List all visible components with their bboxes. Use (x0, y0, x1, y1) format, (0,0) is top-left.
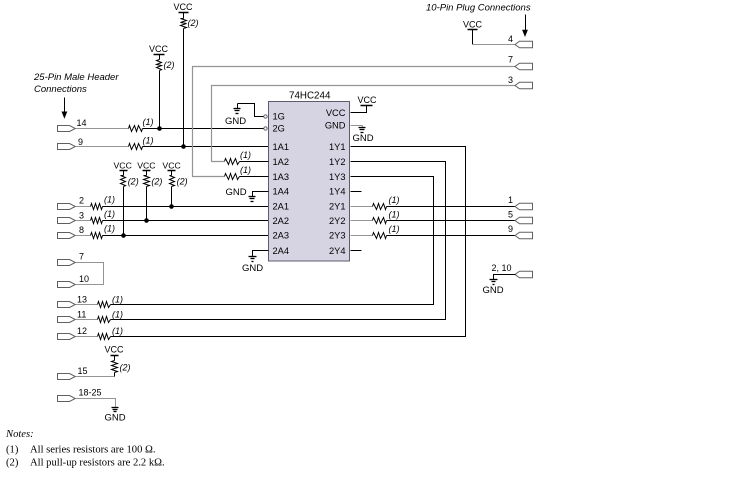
svg-text:VCC: VCC (104, 345, 124, 355)
svg-text:Connections: Connections (34, 84, 87, 95)
resistor (1) series on line 12 (98, 334, 111, 340)
label GND (226, 187, 247, 198)
pin label 1Y3 (329, 172, 346, 182)
svg-text:14: 14 (77, 118, 87, 128)
svg-text:VCC: VCC (149, 44, 169, 54)
value label (1) (104, 209, 115, 219)
resistor (1) series at 2Y2 (373, 218, 387, 224)
svg-text:1A1: 1A1 (273, 142, 290, 152)
wire line 8 to IC (103, 235, 269, 237)
svg-text:2A4: 2A4 (273, 246, 290, 256)
label 8 (79, 225, 84, 235)
connector pin 15 (58, 374, 76, 380)
label 3 (79, 211, 84, 221)
svg-text:(1): (1) (112, 295, 123, 305)
pin label 2A3 (273, 231, 290, 241)
value label (2) (188, 18, 199, 28)
value label (1) (240, 165, 251, 175)
connector pin 3 (58, 218, 76, 224)
svg-text:(2): (2) (177, 177, 188, 187)
svg-text:(2): (2) (164, 60, 175, 70)
power VCC symbol at IC (357, 95, 377, 106)
ground symbol at GND pin (359, 128, 366, 133)
junction node line14/pull-up (157, 126, 162, 131)
svg-text:VCC: VCC (137, 161, 155, 171)
resistor (1) series on line 11 (98, 317, 111, 323)
value label (1) (112, 295, 123, 305)
label 7 (508, 55, 513, 65)
wire pull-up drop (123, 187, 125, 236)
svg-text:(1): (1) (6, 445, 19, 456)
ground symbol (2,10) (490, 280, 498, 285)
svg-text:2A3: 2A3 (273, 231, 290, 241)
svg-text:(2): (2) (120, 363, 131, 373)
label GND (353, 133, 374, 144)
wire pin 15 (76, 376, 115, 378)
pin label 2A4 (273, 246, 290, 256)
connector plug pin 5 (515, 217, 533, 224)
svg-text:1Y1: 1Y1 (329, 142, 346, 152)
label 3 (508, 75, 513, 85)
value label (2) (120, 363, 131, 373)
label 74HC244 (289, 90, 331, 101)
pin label 2Y4 (329, 246, 346, 256)
label 7 (79, 252, 84, 262)
svg-text:13: 13 (77, 295, 87, 305)
svg-text:4: 4 (508, 34, 513, 44)
svg-text:2Y1: 2Y1 (329, 202, 346, 212)
resistor (2) pull-up on line 9 (181, 19, 187, 29)
svg-text:1A3: 1A3 (273, 172, 290, 182)
wire pin11 to resistor (76, 319, 98, 321)
svg-text:(1): (1) (389, 224, 400, 234)
svg-text:10-Pin Plug Connections: 10-Pin Plug Connections (426, 3, 531, 14)
header label: 25-Pin Male Header Connections (33, 72, 119, 95)
wire pull-up to node on line 14 (159, 71, 161, 129)
wire stub 2Y4 (351, 250, 362, 252)
wire ground to 1G (238, 104, 264, 117)
junction node line9/pull-up (181, 144, 186, 149)
connector pin 12 (58, 334, 76, 340)
svg-text:2Y4: 2Y4 (329, 246, 346, 256)
wire pull-up drop (146, 187, 148, 221)
svg-text:GND: GND (242, 263, 263, 274)
svg-text:VCC: VCC (114, 161, 132, 171)
wire VCC pin to supply (351, 106, 367, 113)
wire pull-up to node on line 9 (183, 29, 185, 147)
svg-text:VCC: VCC (162, 161, 180, 171)
value label (2) (151, 177, 162, 187)
connector pin 13 (58, 302, 76, 308)
wire pin3 to resistor (76, 220, 91, 222)
svg-text:11: 11 (77, 310, 86, 320)
wire 2Y1 to plug pin 1 (387, 206, 516, 208)
wire GND pin stub (351, 126, 363, 128)
wire 2Y1 stub (351, 206, 373, 208)
resistor (1) series on line 9 (129, 144, 143, 150)
svg-text:(1): (1) (143, 136, 154, 146)
resistor (1) series on line 14 (129, 126, 143, 132)
svg-text:2, 10: 2, 10 (492, 263, 512, 273)
wire 1Y3 loop to line 13 (111, 177, 434, 305)
resistor (1) series on line 3 (91, 218, 103, 224)
svg-text:(2): (2) (6, 458, 19, 469)
power VCC symbol (pull-up 2 over lines 2/3/8) (137, 161, 155, 176)
connector plug pin 7 (515, 63, 533, 70)
svg-text:1Y2: 1Y2 (329, 157, 346, 167)
wire resistor to 1A2 (240, 161, 269, 163)
resistor (2) pull-up (121, 176, 126, 187)
header label: 10-Pin Plug Connections (426, 3, 531, 14)
svg-text:(1): (1) (104, 224, 115, 234)
power VCC symbol (plug pin 4) (463, 20, 483, 30)
pin label 1Y4 (329, 187, 346, 197)
connector pin 2 (58, 204, 76, 210)
connector plug pin 4 (515, 41, 533, 48)
power VCC symbol (pull-up 1 over lines 2/3/8) (114, 161, 132, 176)
svg-text:1G: 1G (273, 112, 285, 122)
arrow to 25-pin header (62, 98, 68, 119)
connector plug pin 9 (515, 232, 533, 239)
svg-text:15: 15 (78, 366, 88, 376)
svg-text:1: 1 (508, 195, 513, 205)
label GND (104, 413, 125, 424)
svg-text:VCC: VCC (357, 95, 377, 105)
value label (1) (112, 326, 123, 336)
svg-text:25-Pin Male Header: 25-Pin Male Header (33, 72, 119, 83)
notes block (5, 429, 165, 469)
svg-text:12: 12 (77, 326, 87, 336)
wire 1A4 to ground (253, 192, 269, 197)
inversion bubble pin 1G (264, 115, 267, 118)
svg-text:All pull-up resistors are 2.2: All pull-up resistors are 2.2 kΩ. (30, 458, 165, 469)
svg-text:2G: 2G (273, 124, 285, 134)
svg-text:(1): (1) (389, 210, 400, 220)
value label (2) (128, 177, 139, 187)
connector pin 8 (58, 233, 76, 239)
svg-text:GND: GND (226, 187, 247, 198)
wire plug pin 3 to 1A2 resistor (212, 86, 516, 162)
wire VCC to plug pin 4 (473, 30, 516, 45)
wire 2Y2 stub (351, 220, 373, 222)
label GND (225, 116, 246, 127)
connector pin 14 (58, 126, 76, 132)
svg-text:2A2: 2A2 (273, 216, 290, 226)
value label (1) (112, 310, 123, 320)
wire pull-up drop (171, 187, 173, 207)
pin label 1A2 (273, 157, 290, 167)
label GND (483, 285, 504, 296)
label 10 (79, 274, 89, 284)
value label (1) (389, 210, 400, 220)
connector pin 10 (58, 282, 76, 288)
svg-text:10: 10 (79, 274, 89, 284)
wire line 3 to IC (103, 220, 269, 222)
wire plug pin 7 to 1A3 resistor (193, 67, 516, 177)
wire pin8 to resistor (76, 235, 91, 237)
svg-text:VCC: VCC (463, 20, 483, 30)
op IC body 74HC244 U1 (269, 102, 350, 262)
ground symbol at 2A4 (249, 257, 257, 262)
pin label VCC (326, 108, 346, 118)
resistor (1) series at 2Y3 (373, 233, 387, 239)
svg-text:(1): (1) (389, 195, 400, 205)
svg-text:5: 5 (508, 210, 513, 220)
inversion bubble pin 2G (264, 127, 267, 130)
svg-text:1Y3: 1Y3 (329, 172, 346, 182)
wire pin13 to resistor (76, 304, 98, 306)
resistor (2) pull-up (144, 176, 150, 187)
pin label 2Y1 (329, 202, 346, 212)
resistor (1) series at 1A2 (225, 159, 240, 165)
value label (1) (143, 117, 154, 127)
label 9 (78, 137, 83, 147)
label 18-25 (79, 388, 102, 398)
svg-text:(2): (2) (128, 177, 139, 187)
wire line 14 to 2G (143, 128, 264, 130)
label 1 (508, 195, 513, 205)
value label (1) (104, 195, 115, 205)
wire resistor to 1A3 (240, 176, 269, 178)
wire 1Y2 loop to line 11 (111, 162, 446, 320)
pin label GND (325, 121, 346, 131)
svg-text:7: 7 (508, 55, 513, 65)
label 9 (508, 224, 513, 234)
resistor (1) series on line 13 (98, 302, 111, 308)
svg-text:GND: GND (225, 116, 246, 127)
wire pin9 to resistor (76, 146, 129, 148)
connector pins 18-25 (58, 396, 76, 402)
ground symbol at 1G (234, 104, 241, 114)
connector plug pin 1 (515, 203, 533, 210)
wire 2Y3 stub (351, 235, 373, 237)
resistor (2) pull-up on line 14 (157, 60, 162, 71)
label 5 (508, 210, 513, 220)
label 15 (78, 366, 88, 376)
connector pin 7 (58, 260, 76, 266)
label 2 (79, 196, 84, 206)
label 12 (77, 326, 87, 336)
pin label 1G (273, 112, 285, 122)
label 14 (77, 118, 87, 128)
connector pin 9 (58, 144, 76, 150)
svg-text:(1): (1) (112, 310, 123, 320)
svg-text:18-25: 18-25 (79, 388, 102, 398)
svg-text:GND: GND (353, 133, 374, 144)
svg-text:(2): (2) (188, 18, 199, 28)
svg-text:GND: GND (325, 121, 346, 131)
wire line 9 to 1A1 (143, 146, 269, 148)
svg-text:(2): (2) (151, 177, 162, 187)
power VCC symbol (pull-up 3 over lines 2/3/8) (162, 161, 180, 176)
power VCC symbol (pull-up on line 9) (173, 2, 193, 19)
value label (1) (104, 224, 115, 234)
pin label 1A1 (273, 142, 290, 152)
wire 2Y3 to plug pin 9 (387, 235, 516, 237)
wire line 2 to IC (103, 206, 269, 208)
wire joining pins 7 and 10 (76, 263, 104, 285)
svg-text:1A4: 1A4 (273, 187, 290, 197)
ground symbol (18-25) (112, 408, 119, 412)
pin label 1Y1 (329, 142, 346, 152)
junction node line2/pull-up (169, 204, 174, 209)
ground symbol at 1A4 (249, 197, 256, 202)
value label (1) (389, 224, 400, 234)
svg-text:Notes:: Notes: (5, 429, 34, 440)
svg-text:(1): (1) (143, 117, 154, 127)
power VCC symbol (pull-up on line 14) (149, 44, 169, 60)
resistor (1) series on line 8 (91, 233, 103, 239)
arrow to 10-pin plug (522, 15, 528, 38)
svg-text:(1): (1) (104, 195, 115, 205)
label 4 (508, 34, 513, 44)
wire pin12 to resistor (76, 336, 98, 338)
pin label 1Y2 (329, 157, 346, 167)
wire pin14 to resistor (76, 128, 129, 130)
wire plug pins 2,10 to ground (494, 275, 516, 280)
svg-text:VCC: VCC (173, 2, 193, 12)
wire 1Y1 loop to line 12 (111, 147, 466, 337)
resistor (1) series at 1A3 (225, 174, 240, 180)
wire stub 1Y4 (351, 191, 362, 193)
value label (1) (143, 136, 154, 146)
wire pins 18-25 to ground (76, 399, 116, 408)
value label (2) (177, 177, 188, 187)
svg-text:2A1: 2A1 (273, 202, 290, 212)
svg-text:2Y2: 2Y2 (329, 216, 346, 226)
wire 2A4 to ground (253, 251, 269, 257)
power VCC symbol (pull-up on line 15) (104, 345, 124, 361)
resistor (1) series at 2Y1 (373, 204, 387, 210)
pin label 2G (273, 124, 285, 134)
label 13 (77, 295, 87, 305)
svg-text:9: 9 (78, 137, 83, 147)
connector pin 11 (58, 317, 76, 323)
pin label 2Y3 (329, 231, 346, 241)
resistor (1) series on line 2 (91, 204, 103, 210)
resistor (2) pull-up on line 15 (112, 361, 118, 373)
pin label 1A4 (273, 187, 290, 197)
svg-text:74HC244: 74HC244 (289, 90, 331, 101)
pin label 2A2 (273, 216, 290, 226)
pin label 2Y2 (329, 216, 346, 226)
svg-text:7: 7 (79, 252, 84, 262)
connector plug pins 2,10 (515, 271, 533, 278)
svg-text:8: 8 (79, 225, 84, 235)
svg-text:(1): (1) (240, 150, 251, 160)
svg-text:(1): (1) (112, 326, 123, 336)
value label (2) (164, 60, 175, 70)
svg-text:(1): (1) (104, 209, 115, 219)
value label (1) (389, 195, 400, 205)
wire 2Y2 to plug pin 5 (387, 220, 516, 222)
svg-text:VCC: VCC (326, 108, 346, 118)
label GND (242, 263, 263, 274)
svg-text:GND: GND (104, 413, 125, 424)
pin label 1A3 (273, 172, 290, 182)
svg-text:GND: GND (483, 285, 504, 296)
label 2, 10 (492, 263, 512, 273)
label 11 (77, 310, 86, 320)
svg-text:(1): (1) (240, 165, 251, 175)
junction node line3/pull-up (144, 218, 149, 223)
wire pull-up to line 15 (114, 373, 116, 377)
value label (1) (240, 150, 251, 160)
svg-text:3: 3 (79, 211, 84, 221)
svg-text:2: 2 (79, 196, 84, 206)
svg-text:1A2: 1A2 (273, 157, 290, 167)
svg-text:2Y3: 2Y3 (329, 231, 346, 241)
connector plug pin 3 (515, 82, 533, 89)
pin label 2A1 (273, 202, 290, 212)
svg-text:9: 9 (508, 224, 513, 234)
wire pin2 to resistor (76, 206, 91, 208)
junction node line8/pull-up (121, 233, 126, 238)
resistor (2) pull-up (170, 176, 175, 187)
svg-text:All series resistors are 100 Ω: All series resistors are 100 Ω. (30, 445, 156, 456)
svg-text:1Y4: 1Y4 (329, 187, 346, 197)
svg-text:3: 3 (508, 75, 513, 85)
